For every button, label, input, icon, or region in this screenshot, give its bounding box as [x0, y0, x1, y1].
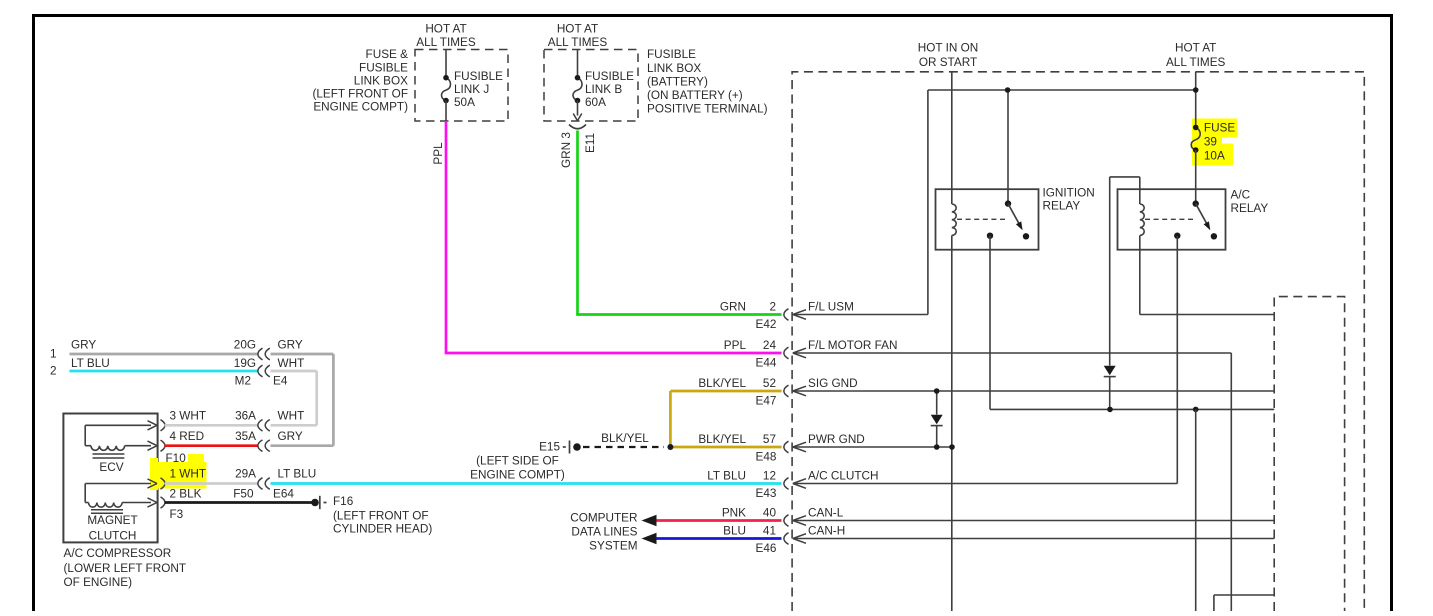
svg-text:OR START: OR START: [919, 56, 977, 69]
svg-text:50A: 50A: [454, 96, 475, 109]
svg-text:FUSIBLE: FUSIBLE: [647, 48, 696, 61]
svg-text:PWR GND: PWR GND: [808, 433, 865, 446]
svg-text:PNK: PNK: [722, 507, 746, 520]
svg-text:HOT IN ON: HOT IN ON: [918, 42, 979, 55]
svg-text:PPL: PPL: [724, 339, 747, 352]
svg-text:E11: E11: [584, 133, 597, 153]
svg-text:57: 57: [763, 433, 776, 446]
svg-text:ENGINE COMPT): ENGINE COMPT): [313, 101, 408, 114]
svg-text:20G: 20G: [234, 338, 256, 351]
svg-text:E4: E4: [273, 374, 288, 387]
svg-text:2: 2: [769, 301, 776, 314]
svg-text:BLK/YEL: BLK/YEL: [698, 433, 746, 446]
svg-text:E44: E44: [756, 357, 777, 370]
svg-text:BLU: BLU: [723, 525, 746, 538]
svg-text:HOT AT: HOT AT: [1175, 42, 1216, 55]
svg-text:29A: 29A: [235, 467, 256, 480]
svg-text:DATA LINES: DATA LINES: [571, 526, 637, 539]
svg-text:41: 41: [763, 525, 776, 538]
svg-text:GRY: GRY: [278, 430, 303, 443]
svg-text:A/C CLUTCH: A/C CLUTCH: [808, 470, 879, 483]
svg-text:3 WHT: 3 WHT: [170, 409, 207, 422]
svg-text:E64: E64: [273, 488, 294, 501]
svg-text:12: 12: [763, 470, 776, 483]
svg-text:(LOWER LEFT FRONT: (LOWER LEFT FRONT: [64, 562, 187, 575]
svg-text:F3: F3: [170, 508, 184, 521]
svg-text:E15: E15: [539, 441, 560, 454]
svg-text:39: 39: [1204, 135, 1217, 148]
svg-text:2: 2: [50, 365, 57, 378]
svg-text:36A: 36A: [235, 409, 256, 422]
svg-text:GRN: GRN: [720, 301, 746, 314]
svg-text:(ON BATTERY (+): (ON BATTERY (+): [647, 89, 743, 102]
svg-text:E43: E43: [756, 487, 777, 500]
svg-text:19G: 19G: [234, 357, 256, 370]
svg-text:35A: 35A: [235, 430, 256, 443]
svg-text:OF ENGINE): OF ENGINE): [64, 576, 133, 589]
svg-text:M2: M2: [235, 374, 251, 387]
svg-text:CAN-L: CAN-L: [808, 507, 844, 520]
svg-text:SYSTEM: SYSTEM: [589, 540, 637, 553]
svg-text:F16: F16: [333, 495, 354, 508]
svg-text:LINK B: LINK B: [585, 83, 622, 96]
svg-text:1: 1: [50, 347, 57, 360]
svg-text:LINK BOX: LINK BOX: [354, 74, 408, 87]
svg-text:LINK J: LINK J: [454, 83, 489, 96]
svg-text:E42: E42: [756, 318, 777, 331]
svg-text:RELAY: RELAY: [1231, 202, 1269, 215]
svg-text:MAGNET: MAGNET: [87, 514, 137, 527]
svg-text:GRY: GRY: [71, 338, 96, 351]
svg-text:2 BLK: 2 BLK: [170, 488, 202, 501]
svg-text:1 WHT: 1 WHT: [170, 467, 207, 480]
svg-text:ENGINE COMPT): ENGINE COMPT): [470, 469, 565, 482]
svg-text:RELAY: RELAY: [1043, 200, 1081, 213]
svg-text:ALL TIMES: ALL TIMES: [1166, 56, 1226, 69]
svg-text:FUSE &: FUSE &: [366, 48, 409, 61]
svg-text:F/L USM: F/L USM: [808, 301, 854, 314]
svg-text:40: 40: [763, 507, 777, 520]
svg-text:POSITIVE TERMINAL): POSITIVE TERMINAL): [647, 103, 768, 116]
svg-text:IGNITION: IGNITION: [1043, 187, 1095, 200]
svg-text:10A: 10A: [1204, 149, 1225, 162]
svg-text:CLUTCH: CLUTCH: [89, 530, 137, 543]
svg-text:BLK/YEL: BLK/YEL: [601, 432, 649, 445]
svg-text:ALL TIMES: ALL TIMES: [416, 36, 476, 49]
svg-text:E47: E47: [756, 395, 777, 408]
svg-text:52: 52: [763, 377, 776, 390]
svg-text:F/L MOTOR FAN: F/L MOTOR FAN: [808, 339, 897, 352]
svg-text:FUSIBLE: FUSIBLE: [585, 70, 634, 83]
svg-text:LT BLU: LT BLU: [71, 357, 110, 370]
svg-text:CAN-H: CAN-H: [808, 525, 845, 538]
svg-text:4 RED: 4 RED: [170, 430, 205, 443]
svg-text:LT BLU: LT BLU: [278, 467, 317, 480]
svg-text:A/C: A/C: [1231, 189, 1251, 202]
svg-text:BLK/YEL: BLK/YEL: [698, 377, 746, 390]
svg-text:F50: F50: [233, 488, 254, 501]
svg-text:SIG GND: SIG GND: [808, 377, 858, 390]
svg-text:COMPUTER: COMPUTER: [570, 512, 637, 525]
svg-text:F10: F10: [166, 452, 187, 465]
svg-text:A/C COMPRESSOR: A/C COMPRESSOR: [64, 547, 172, 560]
svg-text:24: 24: [763, 339, 777, 352]
svg-text:E48: E48: [756, 451, 777, 464]
svg-text:GRN 3: GRN 3: [560, 132, 573, 168]
svg-text:ECV: ECV: [99, 461, 123, 474]
svg-text:LINK BOX: LINK BOX: [647, 62, 701, 75]
svg-text:(BATTERY): (BATTERY): [647, 75, 708, 88]
svg-text:FUSE: FUSE: [1204, 121, 1236, 134]
svg-text:PPL: PPL: [432, 142, 445, 165]
svg-text:FUSIBLE: FUSIBLE: [359, 61, 408, 74]
svg-text:CYLINDER HEAD): CYLINDER HEAD): [333, 523, 432, 536]
svg-text:60A: 60A: [585, 96, 606, 109]
svg-text:(LEFT FRONT OF: (LEFT FRONT OF: [312, 88, 408, 101]
svg-text:ALL TIMES: ALL TIMES: [548, 36, 608, 49]
svg-text:HOT AT: HOT AT: [557, 22, 598, 35]
svg-text:HOT AT: HOT AT: [425, 22, 466, 35]
svg-text:FUSIBLE: FUSIBLE: [454, 70, 503, 83]
svg-text:WHT: WHT: [278, 357, 305, 370]
svg-text:WHT: WHT: [278, 409, 305, 422]
svg-text:LT BLU: LT BLU: [707, 470, 746, 483]
svg-text:(LEFT SIDE OF: (LEFT SIDE OF: [476, 455, 559, 468]
svg-text:E46: E46: [756, 542, 777, 555]
svg-text:(LEFT FRONT OF: (LEFT FRONT OF: [333, 510, 429, 523]
svg-text:GRY: GRY: [278, 338, 303, 351]
